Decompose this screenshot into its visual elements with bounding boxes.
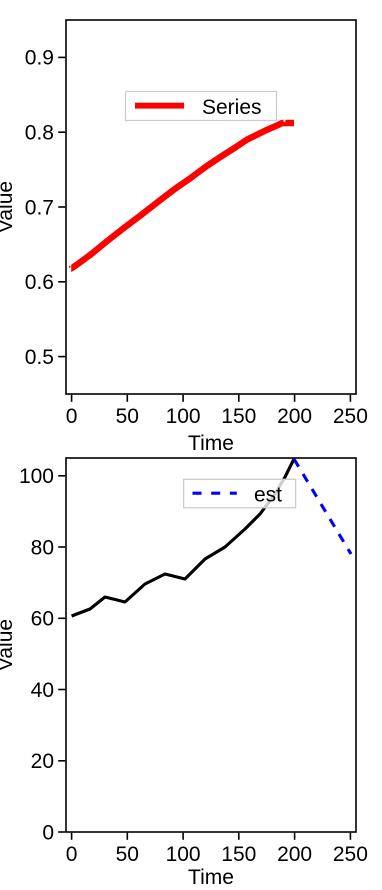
axes frame ax1 bbox=[66, 20, 356, 394]
stray start dot of red curve bbox=[69, 266, 70, 268]
notch artifact near red curve end bbox=[284, 117, 286, 121]
legend ax1 bbox=[126, 92, 277, 121]
svg-text:50: 50 bbox=[116, 843, 139, 866]
x tick labels ax2 bbox=[66, 843, 368, 866]
clip red curve start to vertical edge bbox=[67, 255, 71, 280]
svg-text:0.5: 0.5 bbox=[25, 346, 54, 369]
y ticks ax1 bbox=[58, 57, 65, 356]
svg-text:50: 50 bbox=[116, 405, 139, 428]
svg-text:Series: Series bbox=[202, 96, 262, 119]
svg-text:250: 250 bbox=[333, 405, 368, 428]
axes frame ax2 bbox=[66, 458, 356, 832]
svg-text:150: 150 bbox=[221, 405, 256, 428]
svg-text:200: 200 bbox=[277, 843, 312, 866]
black history line ax2 bbox=[72, 459, 294, 616]
svg-text:0: 0 bbox=[42, 821, 54, 844]
y tick labels ax2 bbox=[19, 465, 54, 844]
svg-text:Time: Time bbox=[188, 432, 234, 455]
svg-text:150: 150 bbox=[221, 843, 256, 866]
y tick labels ax1 bbox=[25, 47, 54, 369]
svg-text:0.8: 0.8 bbox=[25, 122, 54, 145]
svg-text:est: est bbox=[254, 484, 282, 507]
svg-text:Value: Value bbox=[0, 181, 17, 233]
svg-text:250: 250 bbox=[333, 843, 368, 866]
svg-text:0: 0 bbox=[66, 843, 78, 866]
svg-text:Value: Value bbox=[0, 619, 17, 671]
x ticks ax1 bbox=[72, 395, 351, 402]
svg-text:80: 80 bbox=[31, 536, 54, 559]
svg-text:100: 100 bbox=[166, 405, 201, 428]
svg-text:200: 200 bbox=[277, 405, 312, 428]
svg-text:0.9: 0.9 bbox=[25, 47, 54, 70]
svg-text:0: 0 bbox=[66, 405, 78, 428]
svg-text:100: 100 bbox=[166, 843, 201, 866]
legend ax2 bbox=[184, 479, 296, 508]
svg-text:40: 40 bbox=[31, 679, 54, 702]
svg-text:100: 100 bbox=[19, 465, 54, 488]
blue dashed forecast line ax2 bbox=[294, 459, 351, 554]
svg-text:0.6: 0.6 bbox=[25, 271, 54, 294]
svg-text:0.7: 0.7 bbox=[25, 196, 54, 219]
svg-text:60: 60 bbox=[31, 608, 54, 631]
svg-text:20: 20 bbox=[31, 750, 54, 773]
x ticks ax2 bbox=[72, 833, 351, 840]
svg-text:Time: Time bbox=[188, 866, 234, 889]
y ticks ax2 bbox=[58, 476, 65, 832]
x tick labels ax1 bbox=[66, 405, 368, 428]
red data curve bbox=[69, 123, 294, 270]
